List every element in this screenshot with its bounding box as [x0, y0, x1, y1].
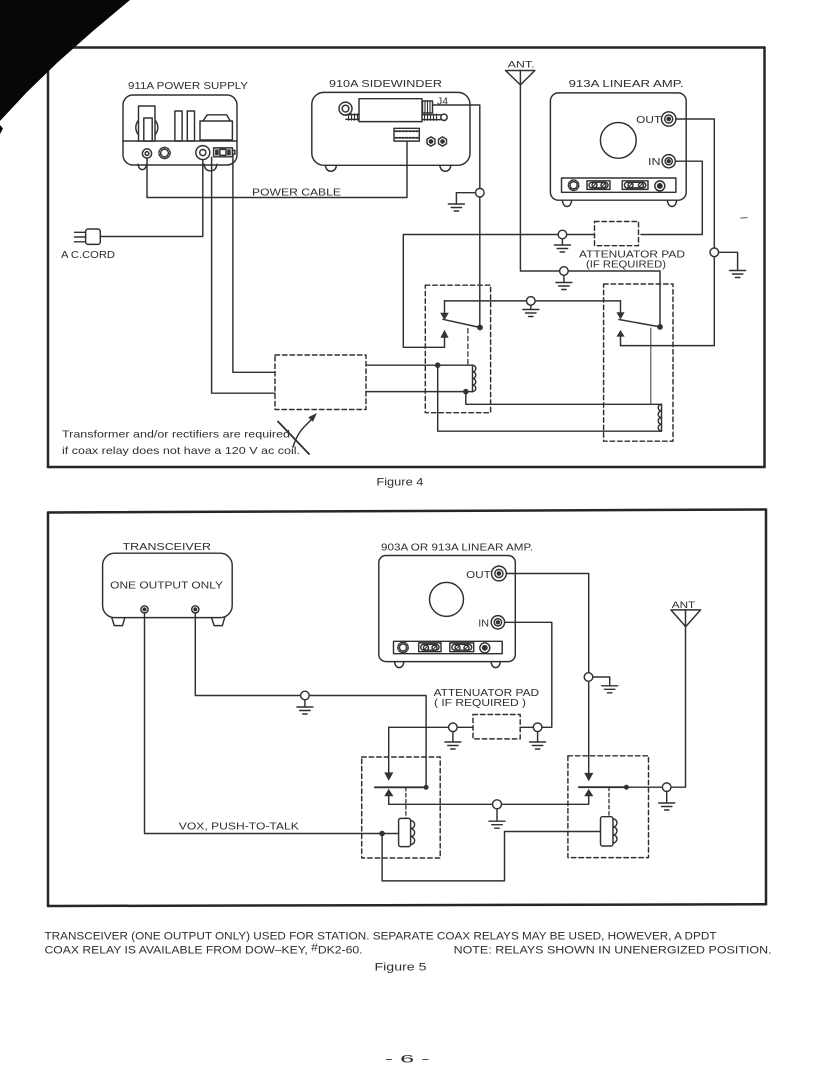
- coax connector on amp OUT line: [710, 248, 719, 257]
- figure 5 border frame: [48, 510, 766, 907]
- wire: relay K1 NC contact to relay K2 NC contact: [445, 300, 621, 302]
- svg-text:NOTE: RELAYS SHOWN IN UNENERG: NOTE: RELAYS SHOWN IN UNENERGIZED POSITI…: [454, 945, 772, 957]
- relay RY2 contact arrow down: [584, 773, 593, 781]
- AC plug: [75, 229, 101, 244]
- node junction dot: [435, 362, 441, 368]
- wire: relay K1 NO contact to attenuator pad line: [403, 235, 594, 348]
- wire: 120V line left from supply connector to transformer box: [212, 157, 275, 393]
- wire: attenuator pad to amp IN jack: [641, 161, 702, 234]
- svg-text:IN: IN: [478, 617, 489, 629]
- coax connector on NO line: [493, 800, 502, 809]
- wire: sidewinder J4 to relay K1 armature: [433, 105, 480, 328]
- svg-text:( IF REQUIRED ): ( IF REQUIRED ): [434, 697, 526, 709]
- stray scan tick: [741, 217, 747, 220]
- wire: coil supply to relay K2 coil bottom: [438, 365, 662, 431]
- relay RY2 armature: [579, 786, 627, 788]
- attenuator pad dashed box: [473, 715, 520, 739]
- wire: transceiver output to relay RY1 armature: [195, 613, 426, 787]
- ground at transceiver line connector: [297, 700, 313, 714]
- annotation arrow to transformer box: [293, 413, 317, 447]
- ground at J4 line connector: [448, 193, 475, 211]
- 903A/913A linear amp unit: [379, 556, 516, 668]
- annotation slash mark: [278, 422, 309, 455]
- relay K1 armature: [443, 319, 483, 330]
- figure 4 border frame: [48, 48, 765, 468]
- relay K1 dashed box: [425, 285, 490, 413]
- relay RY1 contact arrow up: [384, 789, 393, 805]
- wire: power cable from supply jack to sidewinder connector: [147, 141, 407, 197]
- svg-text:Figure 4: Figure 4: [376, 476, 423, 488]
- wire: coil feed to relay RY2 coil: [382, 832, 600, 881]
- 910A sidewinder unit: [312, 92, 470, 171]
- wire: transformer output bottom to relay K1 coil: [366, 391, 473, 393]
- relay RY1 mechanical link: [405, 787, 407, 818]
- ground at attenuator line connector: [554, 239, 570, 252]
- 913A linear amp unit: [550, 93, 686, 207]
- ground at antenna line connector: [556, 275, 572, 289]
- coax connector on NC line: [527, 297, 536, 306]
- relay K2 contact arrow up: [616, 330, 624, 346]
- svg-text:POWER CABLE: POWER CABLE: [252, 187, 341, 199]
- relay K2 coil: [658, 404, 661, 431]
- relay RY1 dashed box: [362, 757, 441, 858]
- antenna symbol: [671, 610, 701, 627]
- svg-text:TRANSCEIVER: TRANSCEIVER: [123, 541, 212, 553]
- svg-text:Transformer and/or rectifiers: Transformer and/or rectifiers are requir…: [62, 429, 290, 441]
- coax connector right of pad: [533, 723, 542, 732]
- relay RY1 coil: [399, 818, 415, 846]
- wire: relay RY2 armature to antenna: [626, 610, 685, 787]
- transceiver unit: [103, 553, 233, 625]
- 911A power supply unit: [123, 95, 237, 171]
- relay K2 contact arrow down: [616, 301, 624, 320]
- svg-text:ANT.: ANT.: [508, 60, 535, 71]
- transformer/rectifier dashed box: [275, 355, 366, 410]
- coax connector on antenna line: [662, 783, 671, 792]
- svg-text:911A POWER SUPPLY: 911A POWER SUPPLY: [128, 80, 248, 92]
- svg-text:OUT: OUT: [466, 569, 491, 581]
- ground at left pad connector: [445, 732, 461, 749]
- svg-text:Figure 5: Figure 5: [375, 962, 427, 974]
- antenna symbol: [506, 71, 661, 327]
- coax connector on attenuator line: [558, 230, 567, 239]
- relay K1 contact arrow up: [440, 330, 448, 348]
- relay K1 contact arrow down: [440, 301, 449, 320]
- ground at antenna connector: [659, 792, 675, 811]
- coax connector on J4 line: [476, 188, 485, 197]
- svg-text:ANT: ANT: [672, 600, 696, 611]
- corner scan artifact (black triangle): [0, 0, 130, 121]
- relay K2 dashed box: [604, 284, 673, 441]
- relay RY2 mechanical link: [608, 787, 610, 817]
- svg-text:(IF REQUIRED): (IF REQUIRED): [586, 259, 666, 271]
- svg-text:OUT: OUT: [636, 114, 662, 126]
- wire: transformer output top to relay K1 coil: [366, 364, 473, 366]
- relay K2 armature: [619, 320, 663, 330]
- ground at NC line connector: [523, 305, 539, 316]
- svg-text:TRANSCEIVER (ONE OUTPUT ONLY): TRANSCEIVER (ONE OUTPUT ONLY) USED FOR S…: [45, 931, 717, 943]
- svg-text:903A OR 913A LINEAR AMP.: 903A OR 913A LINEAR AMP.: [381, 542, 533, 554]
- relay K2 mechanical link: [650, 328, 652, 404]
- ground at amp OUT connector: [593, 677, 618, 693]
- svg-text:ONE OUTPUT ONLY: ONE OUTPUT ONLY: [110, 579, 223, 591]
- coax connector on transceiver line: [301, 691, 310, 700]
- svg-text:A C.CORD: A C.CORD: [61, 249, 115, 261]
- node junction dot: [379, 831, 385, 837]
- wire: VOX push-to-talk line: [145, 613, 399, 834]
- wire: relay K2 NO contact to amp OUT jack: [621, 119, 715, 346]
- coax connector on amp OUT line: [584, 673, 593, 682]
- attenuator pad dashed box: [595, 222, 639, 246]
- relay RY1 contact arrow down: [384, 727, 393, 781]
- node junction dot: [624, 785, 629, 790]
- svg-text:913A LINEAR AMP.: 913A LINEAR AMP.: [569, 78, 684, 90]
- svg-text:VOX, PUSH-TO-TALK: VOX, PUSH-TO-TALK: [179, 821, 299, 833]
- relay RY2 dashed box: [568, 756, 649, 858]
- node junction dot: [463, 389, 469, 395]
- svg-text:COAX RELAY IS AVAILABLE FROM D: COAX RELAY IS AVAILABLE FROM DOW–KEY, #D…: [45, 942, 363, 957]
- wire: 120V line right from supply connector to transformer box: [233, 155, 275, 372]
- wire: amp OUT to relay RY2: [506, 574, 588, 773]
- svg-text:IN: IN: [648, 156, 661, 168]
- wire: AC cord from plug to supply: [100, 160, 203, 237]
- ground at amp OUT connector: [719, 252, 746, 277]
- svg-text:- 6 -: - 6 -: [385, 1054, 431, 1066]
- relay RY1 armature: [375, 786, 426, 788]
- wire: attenuator pad to amp IN: [505, 622, 552, 727]
- ground at NO line connector: [489, 809, 505, 828]
- wire: coil supply to relay K2 coil top: [466, 392, 662, 405]
- relay K1 mechanical link: [467, 329, 469, 364]
- wire: relay RY1 NC to attenuator pad: [389, 726, 473, 728]
- svg-text:if coax relay does not have a: if coax relay does not have a 120 V ac c…: [62, 445, 300, 457]
- coax connector left of pad: [449, 723, 458, 732]
- relay RY2 contact arrow up: [584, 789, 593, 804]
- svg-text:910A SIDEWINDER: 910A SIDEWINDER: [329, 78, 442, 90]
- node junction dot: [424, 785, 429, 790]
- relay RY2 coil: [601, 817, 618, 846]
- ground at right pad connector: [530, 732, 546, 749]
- wire: relay RY1 NO to relay RY2 NO: [389, 803, 589, 805]
- coax connector on antenna line: [560, 267, 569, 276]
- relay K1 coil: [473, 365, 476, 391]
